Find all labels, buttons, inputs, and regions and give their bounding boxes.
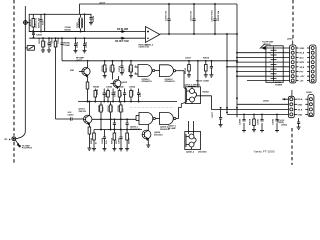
svg-text:RF AMP: RF AMP [168,127,176,130]
wire top rail [80,4,237,14]
svg-text:C2060: C2060 [106,87,113,89]
resistor R2002 tap [41,38,45,52]
svg-text:RX A: RX A [298,98,303,101]
capacitor C2067 gnd chain [119,130,123,151]
svg-text:J2002: J2002 [263,101,270,103]
wire RX bus mid [62,60,237,62]
resistor R2008 emitter [86,82,89,102]
svg-text:Q2012: Q2012 [121,82,128,84]
capacitor C2007 top [0,0,1,1]
resistor R2031 tap [204,61,208,77]
connector J2002 stubs [294,99,308,114]
transistor Q2012 [111,76,121,89]
connector J2002 strip A [288,90,294,118]
capacitor C2000 [39,14,44,31]
svg-text:Q2021-2: Q2021-2 [186,152,195,154]
svg-text:SN16913P: SN16913P [130,129,141,131]
svg-text:+5V: +5V [300,81,304,83]
svg-text:C2004: C2004 [76,41,79,48]
capacitor C2080 tap bottom right [242,114,246,131]
svg-text:uPD4011G: uPD4011G [165,80,176,83]
terminal TX GND bottom left [12,137,21,147]
resistor R2051 gnd chain [125,130,129,151]
wire TX bus lower [78,101,177,103]
svg-text:C2066: C2066 [102,137,104,144]
NAND gate Q2019b [160,113,179,125]
wire Q2013 to gates row2 [92,118,136,120]
svg-text:2SK125: 2SK125 [79,111,87,113]
svg-text:C2016: C2016 [119,65,121,72]
capacitor C2060 tap up [103,89,106,102]
svg-text:C2017: C2017 [185,58,192,60]
svg-text:uPD4011G: uPD4011G [142,80,153,83]
svg-text:R2005: R2005 [65,29,72,31]
wire tap down to buffer pair [197,61,199,88]
svg-text:R2020 10k: R2020 10k [218,10,220,21]
capacitor C2082 tap bottom right [275,114,279,131]
wire gate2 output down to buffer [183,71,185,88]
svg-text:C2061: C2061 [115,90,117,97]
svg-text:C2005: C2005 [86,41,88,48]
connector feed wires right top [227,53,290,81]
wire connector top to boundary [292,41,294,46]
wire bus RX line 2 [29,37,145,39]
resistor R2058 tap bottom right [252,114,256,131]
capacitor C2064 tap down [113,119,116,129]
svg-text:R2048: R2048 [117,105,120,112]
svg-text:C2004: C2004 [57,37,60,44]
capacitor C2016 tap [120,61,124,75]
op-amp Q2001 triangle [146,27,160,43]
resistor R2042 tap up [118,89,121,102]
svg-text:R2031 C2068: R2031 C2068 [196,81,209,83]
capacitor C2061 tap up [112,89,115,102]
svg-text:C2081: C2081 [258,118,260,125]
wire rail mid-left vertical 2 [61,50,63,61]
svg-text:R2047: R2047 [107,105,110,112]
resistor R2009 tap [103,61,107,78]
capacitor C2065 tap down [126,119,129,129]
board boundary dashed line bottom right [291,128,293,165]
svg-text:+13V: +13V [300,76,305,78]
svg-text:2SK: 2SK [70,70,75,72]
svg-text:R2016: R2016 [203,58,210,60]
capacitor C2001 [32,32,35,39]
transistor Q2018 [142,125,151,148]
svg-text:R2002: R2002 [39,37,41,44]
transistor Q2011 [79,62,90,82]
svg-text:Q2011: Q2011 [76,60,83,62]
svg-text:2SC1815: 2SC1815 [198,152,207,154]
NAND gate Q2005b [160,65,185,77]
svg-text:(J2003): (J2003) [264,44,271,46]
svg-text:T2001: T2001 [77,21,79,28]
svg-text:C2051: C2051 [68,115,75,117]
svg-text:C2067: C2067 [118,137,120,144]
resistor R2004 top [84,14,93,25]
svg-text:RL A: RL A [300,52,305,55]
resistor R2041 tap up [107,89,110,102]
transistor Q2013 [84,102,92,128]
relay contact box K2001 [25,46,34,51]
filter cap box [266,46,283,83]
svg-text:RX IN 10M: RX IN 10M [117,28,128,31]
svg-text:C2006: C2006 [64,45,71,47]
NAND gate Q2005a [135,65,160,77]
resistor R2050 gnd chain [112,130,116,151]
svg-text:C2002: C2002 [44,40,46,47]
svg-text:C2012 0.001: C2012 0.001 [212,9,214,22]
svg-text:P.OUTPUT: P.OUTPUT [22,148,33,150]
svg-text:2SC1815: 2SC1815 [154,134,163,136]
capacitor C2002 tap [47,38,51,52]
svg-text:C2064: C2064 [111,105,114,112]
resistor R2001 [32,14,35,31]
board boundary dashed line left [13,0,15,136]
connector J2001 strip A [290,45,297,83]
resistor R2003 tap [54,38,57,47]
svg-text:J2004: J2004 [281,124,288,127]
NAND gate Q2019a [136,113,160,125]
resistor R2040 tap up [94,89,97,102]
svg-text:ANT IN: ANT IN [29,19,32,26]
resistor R2046 tap down [100,102,103,130]
connector feed wires right bottom [227,98,288,114]
svg-text:R2041: R2041 [96,88,99,95]
capacitor C2011 tap top [192,4,195,34]
svg-text:R2009: R2009 [102,65,104,72]
capacitor C2068 tap [209,61,213,77]
capacitor C2051 series [71,117,84,120]
svg-text:C2077: C2077 [212,111,214,118]
capacitor C2081 tap bottom right [260,114,264,131]
wire rail elbow to Q2013 [56,118,71,120]
svg-text:R2046: R2046 [97,105,100,112]
svg-text:R2030: R2030 [185,67,187,74]
wire bus RX line 1 [29,31,145,33]
svg-text:SP A: SP A [300,66,305,69]
svg-text:R2011: R2011 [128,65,130,72]
resistor R2010 tap [111,61,114,80]
svg-text:C2011 0.01: C2011 0.01 [191,10,193,21]
svg-text:10K: 10K [132,68,134,72]
svg-text:GND: GND [298,104,303,106]
svg-text:R2003: R2003 [50,40,52,47]
svg-text:C2062: C2062 [129,87,136,89]
svg-text:C2010 0.01: C2010 0.01 [166,10,168,21]
box antenna filter unit [29,14,84,31]
svg-text:R2058: R2058 [250,118,252,125]
resistor R2048 tap down [120,102,123,130]
svg-text:GND: GND [298,114,303,116]
buffer pair Q2015 Q2016 [185,87,200,104]
wire rail mid-left vertical [55,47,57,119]
connector J2002 strip B [308,95,314,117]
svg-text:ALC: ALC [300,56,305,59]
buffer pair Q2021 Q2022 [185,121,201,150]
wire faint streak [130,107,174,109]
svg-text:J2005: J2005 [306,92,313,94]
svg-text:MTR: MTR [300,62,305,64]
svg-text:R2040: R2040 [93,86,100,89]
svg-text:R2010: R2010 [110,65,112,72]
svg-text:Q2015-2 2SK520: Q2015-2 2SK520 [184,85,201,87]
svg-text:C2001: C2001 [36,35,43,37]
wire lower bus 2 [94,129,142,131]
capacitor C2004 tap [74,38,78,53]
svg-text:C2015 0.01: C2015 0.01 [139,47,150,49]
svg-text:R2042: R2042 [118,86,125,89]
capacitor C2062 tap up [123,89,126,102]
connector J2001 strip B [310,45,317,83]
terminal ANT jack J1 [24,21,30,25]
wire buffer output right [197,96,289,110]
resistor R2043 tap up [130,89,133,102]
resistor R2045 emitter [87,127,91,150]
connector pin stubs [296,48,310,81]
resistor R2030 tap [187,61,191,77]
capacitor C2005 tap [83,38,87,53]
capacitor C2066 gnd chain [103,130,107,151]
svg-text:▶: ▶ [8,138,11,141]
wire gate feed left buffer [184,87,187,90]
svg-text:+B TX: +B TX [99,3,105,5]
svg-text:R2001 470: R2001 470 [37,17,40,28]
wire rail right vertical 2 [226,34,228,113]
svg-text:R2049: R2049 [90,137,93,144]
capacitor C2003 tap [61,38,64,50]
wire gate row2 output up to buffer [179,102,187,119]
svg-text:R2043: R2043 [132,89,135,96]
capacitor C2084 below connector [297,118,301,129]
capacitor C2077 tap [219,109,223,127]
svg-text:TX A: TX A [298,108,303,111]
svg-text:R2004: R2004 [92,15,95,22]
capacitor C2012 tap top [213,4,216,34]
resistor R2049 gnd chain [92,130,96,151]
op-amp U2001 input arrows [120,31,125,40]
wire rail left vertical [16,6,26,139]
svg-text:R2064: R2064 [203,91,210,94]
svg-text:Yaesu FT-1000: Yaesu FT-1000 [254,149,275,153]
capacitor C2063 tap up [137,89,140,102]
svg-text:GND: GND [300,48,305,50]
board boundary dashed line top right [292,0,294,40]
filter capacitors on pins [271,47,277,82]
svg-text:J2001: J2001 [287,39,294,41]
svg-text:C2080: C2080 [240,118,242,125]
svg-text:TUNER: TUNER [275,85,283,87]
transformer T2001 [79,14,83,31]
svg-text:R2051: R2051 [129,137,131,144]
svg-text:R2050: R2050 [112,137,114,144]
wire op-amp output [160,33,237,35]
wire arrow top pin [260,44,290,50]
resistor R2011 tap [129,61,133,78]
svg-text:C2082: C2082 [273,118,275,125]
resistor R2047 tap down [109,102,112,130]
capacitor C2010 tap top [167,4,170,34]
wire rail right vertical J-feed [236,4,238,117]
svg-text:RX OUT 10M: RX OUT 10M [115,40,129,43]
